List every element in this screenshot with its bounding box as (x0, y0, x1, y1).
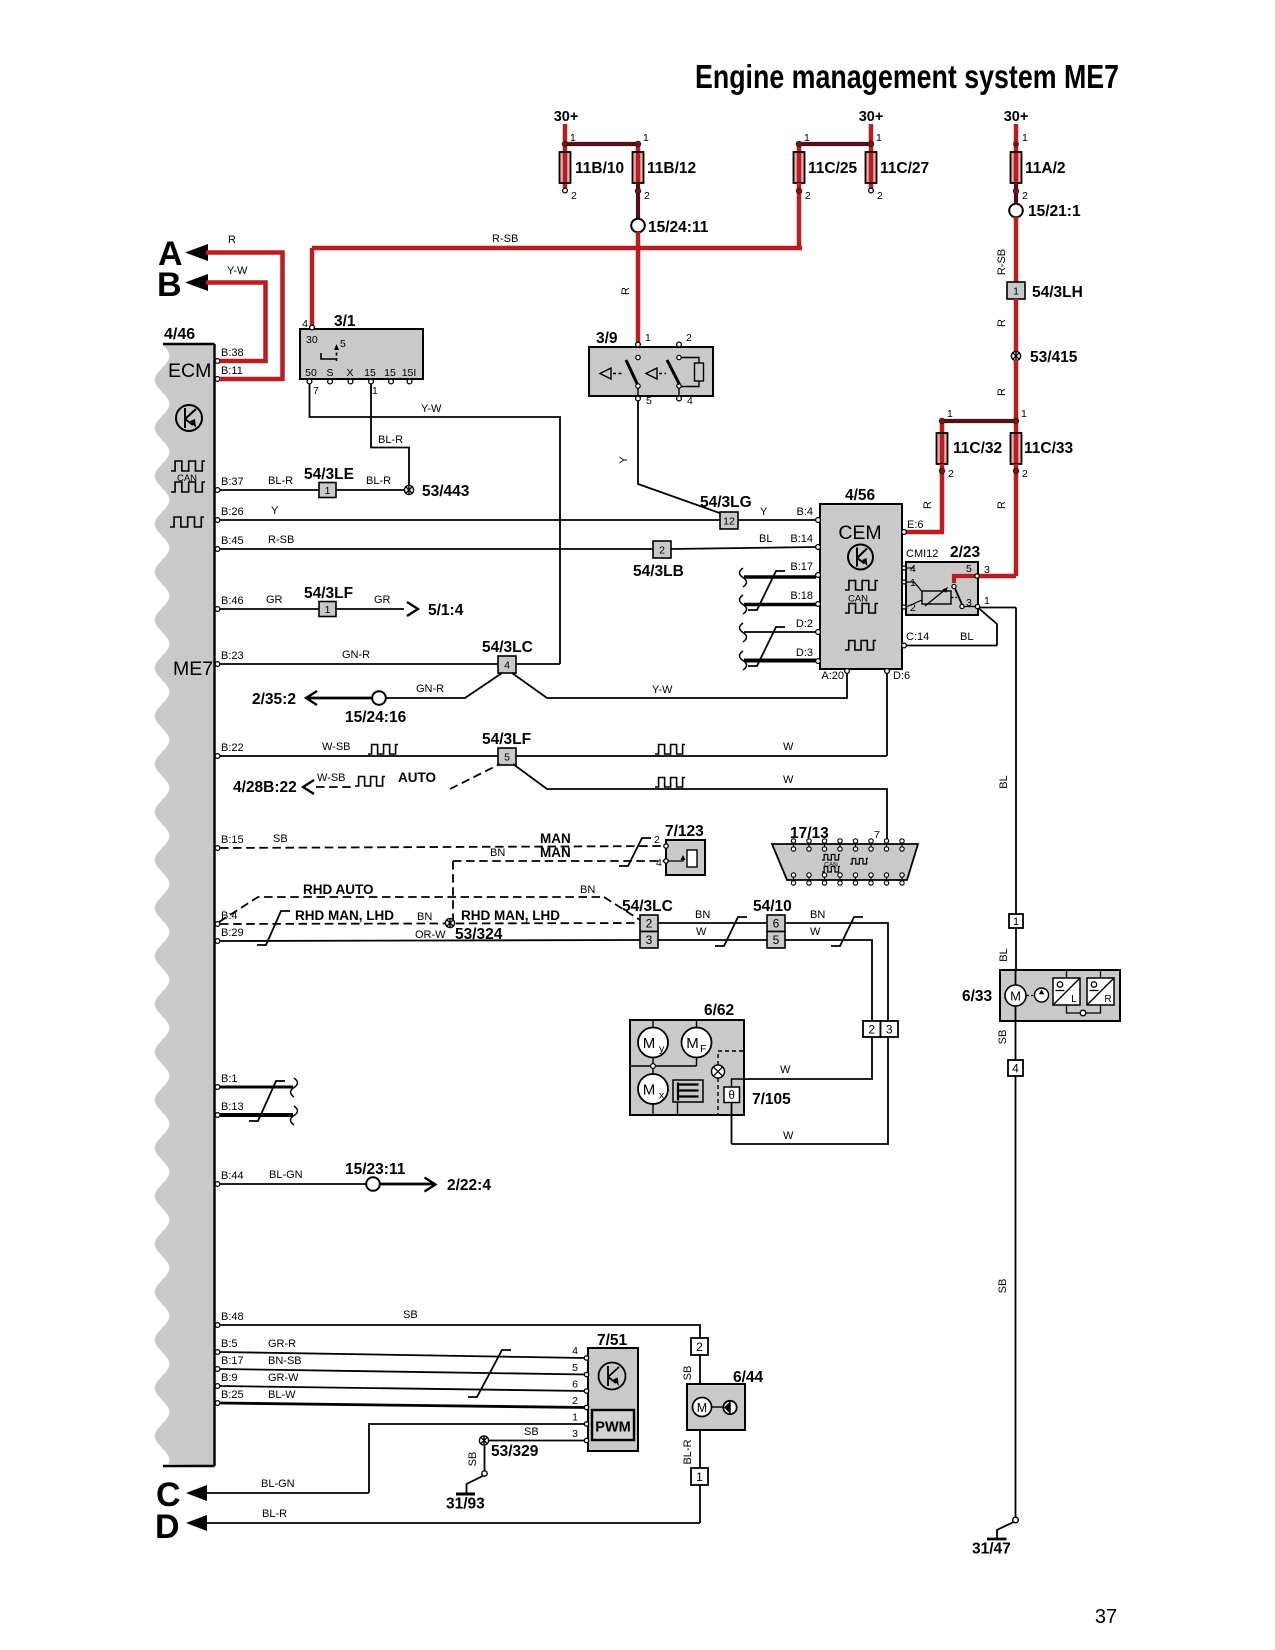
svg-text:3: 3 (966, 597, 972, 609)
ECM pin B:13 (215, 1113, 220, 1118)
solenoid 7/123 element (687, 850, 697, 867)
fuse 11C/27 (866, 152, 877, 183)
svg-text:3: 3 (572, 1428, 578, 1440)
svg-text:Y-W: Y-W (421, 403, 442, 415)
harness slash B1-B13 (249, 1081, 285, 1121)
switch 3/9 arrow 1 (600, 368, 611, 379)
wire W-SB B:22 to 54/3LF (220, 755, 498, 757)
2/23 coil (922, 591, 951, 604)
svg-text:BN: BN (810, 909, 825, 921)
wire R 54/3LH to splice 53/415 (1014, 299, 1019, 352)
svg-text:ME7: ME7 (173, 658, 213, 680)
wire R-SB B:45 to CEM B:14 (220, 547, 818, 549)
svg-text:GN-R: GN-R (416, 683, 444, 695)
svg-text:SB: SB (273, 833, 288, 845)
splice 53/324 (445, 918, 454, 927)
svg-text:3: 3 (646, 933, 653, 947)
svg-text:x: x (659, 1090, 665, 1102)
svg-text:6/33: 6/33 (962, 988, 993, 1005)
6/62 motor MF (682, 1028, 712, 1058)
17/13 CAN waves (822, 855, 840, 861)
svg-text:BL: BL (998, 948, 1010, 961)
wire solid diagonal from 54/3LF5 to W row (513, 764, 887, 841)
relay 2/23 body (906, 562, 978, 615)
svg-text:BL-GN: BL-GN (261, 1478, 295, 1490)
svg-text:15I: 15I (402, 367, 417, 379)
CEM ignition symbol (848, 545, 873, 570)
svg-text:RHD MAN, LHD: RHD MAN, LHD (295, 908, 394, 923)
6/62 motor Mx (638, 1074, 668, 1104)
wire SB 7/51 pin3 to splice 53/329 (488, 1440, 584, 1442)
svg-text:B:45: B:45 (221, 535, 244, 547)
svg-text:BN: BN (580, 884, 595, 896)
ECM pin B:37 (215, 488, 220, 493)
wires ECM to 7/51 (220, 1352, 586, 1358)
svg-text:D:6: D:6 (893, 670, 910, 682)
svg-text:MAN: MAN (540, 831, 571, 846)
svg-text:6/44: 6/44 (733, 1369, 764, 1386)
svg-text:2: 2 (644, 190, 650, 202)
svg-text:54/3LH: 54/3LH (1032, 284, 1083, 301)
svg-text:15/24:16: 15/24:16 (345, 709, 407, 726)
svg-text:B:17: B:17 (221, 1355, 244, 1367)
wire stub 11C/25 (797, 144, 802, 152)
svg-text:5: 5 (340, 338, 346, 350)
connector 54/3LB (653, 541, 671, 558)
svg-text:53/415: 53/415 (1030, 349, 1078, 366)
switch 3/9 pin4 (678, 388, 680, 396)
svg-text:2: 2 (696, 1340, 703, 1354)
svg-text:1: 1 (804, 132, 810, 144)
svg-text:Y-W: Y-W (652, 684, 673, 696)
svg-text:1: 1 (984, 595, 990, 607)
wire 11C/32 pin2 to CEM E:6 (940, 464, 945, 532)
svg-text:Y: Y (271, 505, 279, 517)
2/23 red feed inside (954, 576, 978, 583)
svg-text:W: W (783, 774, 794, 786)
wire Y-W from 3/1 pin50 (310, 384, 561, 664)
svg-text:6: 6 (773, 917, 780, 931)
svg-text:1: 1 (643, 132, 649, 144)
wire SB 6/33 down (1015, 1006, 1017, 1060)
wire thick to 2/22:4 (380, 1183, 434, 1186)
svg-text:B:37: B:37 (221, 476, 244, 488)
relay 3/1 body (300, 329, 423, 379)
ECM pin B:15 (215, 846, 220, 851)
svg-text:BL-GN: BL-GN (269, 1169, 303, 1181)
wire 11C/25 pin2 down to R-SB line (797, 183, 802, 248)
svg-text:RHD AUTO: RHD AUTO (303, 882, 374, 897)
svg-text:1: 1 (372, 385, 378, 397)
svg-text:C:14: C:14 (906, 631, 929, 643)
svg-text:B:29: B:29 (221, 927, 244, 939)
svg-text:3/1: 3/1 (334, 313, 356, 330)
wire fuse stubs 11B/10 (563, 144, 568, 152)
svg-text:B:26: B:26 (221, 506, 244, 518)
wire GR B:46 to 5/1:4 (220, 608, 404, 610)
wire BL-R from 3/1 pin15 (371, 384, 409, 485)
svg-text:B:1: B:1 (221, 1073, 238, 1085)
wire Y-W to B from ECM B:38 (206, 283, 266, 362)
wire BL-R to D row (699, 1485, 701, 1523)
relay 3/1 bottom pins (307, 379, 312, 384)
svg-text:11C/33: 11C/33 (1024, 440, 1074, 457)
ground 31/47 (1013, 1517, 1019, 1523)
wire R-SB main feed (636, 232, 641, 343)
connector 54/10 pins 6-5 (767, 915, 785, 932)
harness slash CAN D2-D3 (748, 627, 785, 666)
brace D:2 (740, 623, 747, 642)
svg-text:B:17: B:17 (790, 561, 813, 573)
harness slash before 54/10 (715, 917, 747, 946)
svg-text:BL: BL (998, 775, 1010, 788)
ECM pin B:1 (215, 1085, 220, 1090)
ground 31/93 (482, 1471, 487, 1476)
heater unit 6/62 body (630, 1020, 744, 1115)
6/33 mirror R (1087, 978, 1114, 1005)
svg-text:54/3LF: 54/3LF (482, 731, 531, 748)
wire BL-GN B:44 to 15/23:11 (220, 1183, 366, 1185)
wire 11C/33 pin2 to 2/23 pin3 (1014, 464, 1019, 576)
wire 30+ to fuse 11B/10 (563, 124, 568, 144)
wire bar above 11C/32 11C/33 (942, 419, 1016, 423)
svg-text:A:20: A:20 (821, 670, 844, 682)
wire 11B/12 pin2 to junction 15/24:11 (636, 183, 640, 219)
svg-text:7/105: 7/105 (752, 1091, 791, 1108)
wire 7/51 pin1 to C row (369, 1424, 584, 1493)
connector 54/3LF first (319, 602, 336, 617)
fan control module 7/51 body (588, 1348, 638, 1451)
6/33 motor M (1005, 985, 1026, 1006)
wire 11A/2 pin2 to junction 15/21:1 (1014, 183, 1018, 204)
svg-text:4: 4 (1012, 1061, 1019, 1075)
svg-text:15: 15 (384, 367, 396, 379)
wire pin1 to BL column (980, 607, 1016, 609)
temperature sensor 7/105 (724, 1087, 740, 1103)
svg-text:1: 1 (572, 1412, 578, 1424)
svg-text:X: X (346, 367, 353, 379)
ECM pin B:46 (215, 607, 220, 612)
junction box 2 (863, 1021, 881, 1037)
wire BN 54/3LC2 to 54/10 6 (658, 922, 767, 924)
svg-text:15/24:11: 15/24:11 (648, 219, 709, 236)
svg-text:30+: 30+ (859, 109, 884, 125)
svg-text:54/3LF: 54/3LF (304, 585, 353, 602)
svg-text:1: 1 (1021, 408, 1027, 420)
svg-text:1: 1 (696, 1470, 703, 1484)
signal wave on B:22 (368, 745, 398, 755)
junction 15/23:11 (366, 1177, 380, 1191)
svg-text:R: R (996, 388, 1008, 396)
splice 53/415 (1011, 351, 1020, 360)
CEM central module 4/56 body (820, 504, 902, 669)
svg-text:B:46: B:46 (221, 595, 244, 607)
pin 2 of 11C/27 (869, 188, 874, 193)
svg-text:5: 5 (646, 395, 652, 407)
harness slash 7/51 wires (468, 1350, 511, 1397)
svg-text:GR-W: GR-W (268, 1372, 299, 1384)
svg-text:S: S (326, 367, 333, 379)
fuse 11C/32 (937, 433, 948, 464)
svg-text:GR: GR (374, 594, 391, 606)
ECM pin B:25 (215, 1401, 220, 1406)
svg-text:BN: BN (417, 911, 432, 923)
ECM ignition symbol (176, 405, 202, 431)
wire BL 2/23 to 6/33 (1015, 608, 1017, 915)
switch 3/9 contact 1 (636, 355, 640, 359)
arrow to 5/1:4 (407, 602, 418, 616)
svg-text:5: 5 (773, 933, 780, 947)
wire dashed diagonal to 54/3LF5 (450, 764, 500, 789)
svg-text:4: 4 (687, 395, 693, 407)
fuse 11B/12 (633, 152, 644, 183)
wire R down to relay 3/1 (310, 248, 315, 325)
svg-text:D: D (155, 1508, 180, 1546)
connector 54/3LF pin5 (498, 748, 516, 765)
svg-text:30: 30 (306, 334, 318, 346)
junction 15/24:11 (631, 219, 645, 233)
CAN pair B:18 (744, 603, 816, 606)
inline connector box 2 of 6/44 (691, 1338, 708, 1355)
svg-text:2: 2 (654, 834, 660, 846)
wire R-SB right column down to 54/3LH (1014, 217, 1019, 284)
svg-text:54/3LG: 54/3LG (700, 494, 752, 511)
svg-text:53/443: 53/443 (422, 483, 470, 500)
7/51 pins (584, 1356, 588, 1360)
svg-text:B:38: B:38 (221, 347, 244, 359)
svg-text:W: W (810, 926, 821, 938)
svg-text:1: 1 (325, 485, 331, 497)
svg-text:B:18: B:18 (790, 590, 813, 602)
svg-text:R: R (228, 234, 236, 246)
wire BN dashed to 7/123 pin4 (453, 860, 666, 862)
CEM left pins (816, 518, 821, 523)
wire BL-R 6/44 down (699, 1430, 701, 1468)
svg-text:50: 50 (305, 367, 317, 379)
svg-text:B:13: B:13 (221, 1101, 244, 1113)
svg-text:1: 1 (876, 132, 882, 144)
wire junction2 down to 6/62 W (744, 1037, 872, 1079)
svg-text:2: 2 (659, 544, 665, 556)
svg-text:BL-R: BL-R (378, 434, 403, 446)
svg-text:2/22:4: 2/22:4 (447, 1177, 491, 1194)
wire 7/105 top to W (732, 1079, 745, 1087)
2/23 switch (952, 584, 956, 588)
svg-text:53/329: 53/329 (491, 1443, 539, 1460)
wire W to D:6 riser (516, 755, 887, 757)
ECM pin B:4 (215, 922, 220, 927)
6/33 clock symbol (1027, 995, 1035, 997)
ECM pin B:48 (215, 1323, 220, 1328)
svg-text:W: W (780, 1064, 791, 1076)
svg-text:30+: 30+ (1004, 109, 1029, 125)
svg-text:L: L (1071, 994, 1077, 1005)
wire 54/3LC to Y-W drop (516, 663, 560, 665)
svg-text:B:23: B:23 (221, 650, 244, 662)
relay 3/1 coil symbol (321, 353, 336, 359)
wire R to A from ECM B:11 (206, 253, 283, 380)
svg-text:1: 1 (947, 408, 953, 420)
wire 30+ to fuse 11A/2 (1014, 124, 1019, 152)
svg-text:3: 3 (984, 564, 990, 576)
svg-text:54/3LB: 54/3LB (633, 563, 684, 580)
svg-text:B:14: B:14 (790, 533, 813, 545)
wire BN 54/10 to junction3 (785, 923, 888, 1021)
svg-text:B:11: B:11 (221, 365, 243, 377)
svg-text:54/10: 54/10 (753, 898, 792, 915)
wire diagonal to GN-R 15/24:16 (386, 673, 502, 698)
wire dashed riser splice to BN MAN row (452, 861, 454, 919)
connector 54/3LC pin4 (498, 656, 516, 673)
junction box 3 (881, 1021, 899, 1037)
svg-text:1: 1 (1013, 916, 1019, 928)
brace B:18 (740, 595, 747, 614)
svg-text:1: 1 (1022, 132, 1028, 144)
switch 3/9 arrow 2 (646, 368, 657, 379)
svg-text:R: R (620, 287, 632, 295)
svg-text:2: 2 (646, 917, 653, 931)
svg-text:30+: 30+ (554, 109, 579, 125)
wire SB to ground 31/47 (1015, 1076, 1017, 1517)
svg-text:SB: SB (997, 1030, 1009, 1045)
svg-text:4: 4 (302, 318, 308, 330)
svg-text:2/23: 2/23 (950, 544, 981, 561)
svg-text:SB: SB (997, 1279, 1009, 1294)
6/62 internal bus (652, 1058, 654, 1067)
CEM right pin E:6 (902, 530, 907, 535)
svg-text:31/93: 31/93 (446, 1496, 485, 1513)
harness slash RHD rows (257, 911, 290, 945)
svg-text:4: 4 (910, 563, 916, 575)
ECM pin B:29 (215, 939, 220, 944)
svg-text:12: 12 (723, 515, 735, 527)
svg-text:W-SB: W-SB (322, 741, 351, 753)
signal wave on second W (655, 778, 685, 788)
svg-text:2: 2 (805, 190, 811, 202)
svg-text:E:6: E:6 (907, 519, 924, 531)
connector 54/3LH (1007, 282, 1025, 299)
ECM pin B:11 (215, 377, 220, 382)
svg-text:4: 4 (656, 857, 662, 869)
svg-text:BL-R: BL-R (366, 475, 391, 487)
svg-text:R-SB: R-SB (268, 534, 294, 546)
brace B:17 (740, 568, 747, 587)
svg-text:R-SB: R-SB (996, 249, 1008, 275)
wire C:14 BL (906, 645, 997, 647)
svg-text:5: 5 (504, 751, 510, 763)
connector 54/3LE (319, 483, 336, 498)
wire dashed W-SB AUTO (316, 786, 352, 788)
wire BL-R D row (207, 1522, 700, 1524)
inline connector box 1 of 6/44 (691, 1468, 708, 1485)
switch 3/9 pin2 (677, 342, 682, 347)
junction 15/24:16 (372, 691, 386, 705)
svg-text:SB: SB (524, 1426, 539, 1438)
svg-text:2: 2 (572, 1395, 578, 1407)
svg-text:2: 2 (1022, 468, 1028, 480)
wire Y from 3/9 pin5 to 54/3LG (638, 401, 721, 514)
svg-text:BL: BL (960, 631, 973, 643)
svg-text:6: 6 (572, 1379, 578, 1391)
signal wave on AUTO row (355, 777, 385, 787)
ECM control module 4/46 body (155, 344, 215, 1466)
svg-text:2: 2 (571, 190, 577, 202)
svg-text:BN-SB: BN-SB (268, 1355, 302, 1367)
svg-text:4/28B:22: 4/28B:22 (233, 779, 297, 796)
diagnostic connector 17/13 body (772, 844, 918, 880)
horn unit 6/44 body (687, 1384, 745, 1430)
CAN stub B:13 (220, 1113, 293, 1117)
switch 3/9 contact 2 (677, 355, 681, 359)
svg-text:W: W (783, 741, 794, 753)
CEM right pin C:14 (902, 643, 907, 648)
fuse 11A/2 (1011, 152, 1022, 183)
wire BL box1 to 6/33 (1015, 928, 1017, 970)
ECM pin B:45 (215, 547, 220, 552)
wire BL-GN C row (207, 1492, 369, 1494)
svg-text:B:48: B:48 (221, 1311, 244, 1323)
wire 30+ to fuse 11C/27 (869, 124, 874, 144)
svg-text:B:25: B:25 (221, 1389, 244, 1401)
svg-text:D:3: D:3 (796, 647, 813, 659)
svg-text:M: M (643, 1082, 656, 1099)
splice 53/443 (404, 485, 413, 494)
svg-text:B:15: B:15 (221, 834, 244, 846)
svg-text:1: 1 (325, 604, 331, 616)
6/62 dashed links (718, 1051, 744, 1065)
switch 3/9 resistor (681, 358, 699, 364)
junction 15/21:1 (1009, 204, 1023, 218)
wire SB B:48 to box2 (220, 1325, 700, 1338)
svg-text:BN: BN (695, 909, 710, 921)
fuse 11C/33 (1011, 433, 1022, 464)
svg-text:MAN: MAN (540, 845, 571, 860)
ECM pin B:22 (215, 754, 220, 759)
svg-text:R: R (1104, 994, 1111, 1005)
wire Y B:26 to CEM B:4 (220, 519, 818, 521)
svg-text:BN: BN (490, 847, 505, 859)
svg-text:Y-W: Y-W (227, 265, 248, 277)
wire diagonal Y-W to CEM A:20 (512, 673, 847, 698)
wire RHD AUTO dashed from B:4 (219, 897, 604, 922)
harness slash CAN B17-B18 (748, 571, 785, 610)
svg-text:3: 3 (886, 1022, 893, 1036)
svg-text:11A/2: 11A/2 (1025, 160, 1066, 177)
junction dots group1 (562, 141, 568, 147)
svg-text:SB: SB (467, 1452, 479, 1467)
wire SB splice down (484, 1446, 486, 1471)
svg-text:7: 7 (874, 829, 880, 841)
svg-text:15/21:1: 15/21:1 (1028, 203, 1081, 220)
svg-text:BL-R: BL-R (268, 475, 293, 487)
svg-text:5: 5 (572, 1362, 578, 1374)
6/33 internal wires (1066, 970, 1068, 978)
svg-text:R: R (996, 319, 1008, 327)
svg-text:3/9: 3/9 (596, 330, 618, 347)
wire OR-W B:29 to 54/3LC3 (220, 940, 640, 941)
connector 54/3LG (720, 512, 738, 529)
wire junction3 down to 7/105 W (732, 1037, 889, 1144)
svg-text:Y: Y (618, 456, 630, 464)
ECM pin B:5 (215, 1350, 220, 1355)
svg-text:37: 37 (1095, 1606, 1117, 1628)
fuse 11C/25 (794, 152, 805, 183)
wire pin1 to C:14 BL (979, 609, 997, 646)
connector 54/3LC pins 2-3 (640, 915, 658, 932)
svg-text:5/1:4: 5/1:4 (428, 602, 464, 619)
svg-text:PWM: PWM (595, 1420, 630, 1436)
svg-text:M: M (1010, 989, 1021, 1004)
